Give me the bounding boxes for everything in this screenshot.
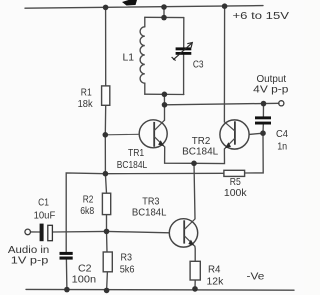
wire: R2 bottom to TR3 base node <box>106 215 108 232</box>
svg-text:4V p-p: 4V p-p <box>253 83 288 95</box>
wire: tank bottom junction to collector node <box>163 94 165 105</box>
wire: tank top horizontal <box>145 16 184 18</box>
junction dot: TR2 base / C4 / R5 <box>260 130 266 136</box>
audio input terminal <box>25 229 31 235</box>
wire: C2 bottom to ground rail <box>65 260 68 290</box>
svg-text:5k6: 5k6 <box>120 264 135 276</box>
wire: TR3 emitter to R4 top <box>194 246 196 261</box>
junction dot: TR1 base node <box>103 132 109 138</box>
output terminal <box>279 101 284 106</box>
resistor R5 <box>224 170 245 176</box>
junction dot: tank bottom <box>162 92 168 98</box>
wire: input terminal to C1 <box>31 231 40 233</box>
wire: ground rail (-Ve) <box>26 288 294 291</box>
wire: TR3 base node to R3 top <box>106 231 109 252</box>
svg-text:C2: C2 <box>78 262 92 274</box>
svg-text:12k: 12k <box>207 276 225 288</box>
wire: R1 bottom to TR1 base node <box>104 105 106 135</box>
stray ink mark (cropped print above schematic) <box>122 0 137 6</box>
junction dot: ground / R4 <box>192 286 198 292</box>
capacitor C4 plates <box>255 116 271 124</box>
junction dot: TR3 base node <box>104 229 110 235</box>
resistor R3 <box>103 252 112 272</box>
capacitor C3 plates (variable) <box>176 47 192 54</box>
svg-text:C1: C1 <box>38 197 49 209</box>
svg-text:R3: R3 <box>121 251 133 263</box>
wire: TR3 base from bias divider node <box>107 231 170 232</box>
svg-text:10uF: 10uF <box>34 209 56 221</box>
wire: R4 bottom to ground rail <box>194 280 196 289</box>
wire: rail to TR2 collector <box>223 6 225 122</box>
wire: TR1 base node to bias node B <box>104 135 106 174</box>
capacitor C2 plates <box>60 252 73 260</box>
svg-text:BC184L: BC184L <box>182 145 218 157</box>
resistor R4 <box>190 261 200 280</box>
svg-text:100k: 100k <box>224 187 247 199</box>
wire: TR2 base node down to R5 right end <box>245 133 264 173</box>
wire: C4 bottom lead to TR2 base node <box>262 124 264 133</box>
wire: node B to R2 top <box>105 174 106 194</box>
svg-text:BC184L: BC184L <box>117 159 148 171</box>
svg-text:6k8: 6k8 <box>80 205 94 217</box>
junction dot: rail / R1 <box>103 5 109 11</box>
wire: rail to tank top junction <box>163 7 165 18</box>
svg-text:C4: C4 <box>276 128 288 140</box>
svg-text:1n: 1n <box>277 141 287 153</box>
resistor R1 <box>102 86 110 105</box>
capacitor C1 electrolytic plates <box>40 224 44 242</box>
svg-text:BC184L: BC184L <box>132 206 167 218</box>
inductor L1 winding <box>140 17 145 94</box>
wire: rail to R1 top <box>105 7 107 86</box>
wire: R3 bottom to ground rail <box>106 272 109 291</box>
capacitor C3 trimmer arrow <box>172 43 193 61</box>
wire: R5 left end to node B <box>105 172 223 174</box>
svg-text:1V p-p: 1V p-p <box>11 255 49 267</box>
svg-text:18k: 18k <box>78 98 94 110</box>
junction dot: output line / C4 <box>261 101 267 107</box>
junction dot: bias node B <box>103 171 109 177</box>
svg-text:R1: R1 <box>81 86 92 98</box>
svg-text:C3: C3 <box>193 58 204 70</box>
svg-text:L1: L1 <box>123 51 135 63</box>
wire: emitter junction to TR3 collector <box>194 163 195 219</box>
svg-text:-Ve: -Ve <box>247 271 265 283</box>
transistor TR1 <box>139 120 167 148</box>
wire: TR2 base to output coupling node <box>249 133 263 134</box>
junction dot: collector/output node <box>162 102 168 108</box>
svg-text:TR1: TR1 <box>128 147 144 159</box>
wire: TR1 emitter down and emitter rail to TR2 emitter <box>165 147 225 164</box>
wire: C4 top lead from output line <box>262 104 264 117</box>
junction dot: tank top <box>161 15 167 21</box>
resistor R2 <box>102 193 110 214</box>
transistor TR2 (mirrored) <box>220 120 249 149</box>
junction dot: ground / C2 <box>64 287 70 293</box>
svg-text:+6 to 15V: +6 to 15V <box>233 10 290 22</box>
wire: node B to C2 top <box>66 173 105 252</box>
svg-text:R4: R4 <box>208 264 221 276</box>
junction dot: emitter rail / TR3 collector <box>191 161 197 167</box>
wire: +V supply rail <box>25 6 263 9</box>
wire: oscillator output line to terminal <box>165 103 280 105</box>
wire: tank bottom horizontal <box>145 93 184 95</box>
transistor TR3 <box>169 219 197 247</box>
junction dot: rail / TR2 collector <box>222 3 228 9</box>
wire: TR1 collector to collector node <box>164 105 166 120</box>
junction dot: rail / tank <box>161 4 167 10</box>
svg-text:100n: 100n <box>72 274 97 286</box>
junction dot: ground / R3 <box>104 288 110 294</box>
capacitor C3 leads <box>183 18 185 48</box>
wire: TR1 base lead <box>105 133 140 136</box>
svg-text:R2: R2 <box>83 193 94 205</box>
wire: C1 to TR3 base node <box>52 230 106 233</box>
